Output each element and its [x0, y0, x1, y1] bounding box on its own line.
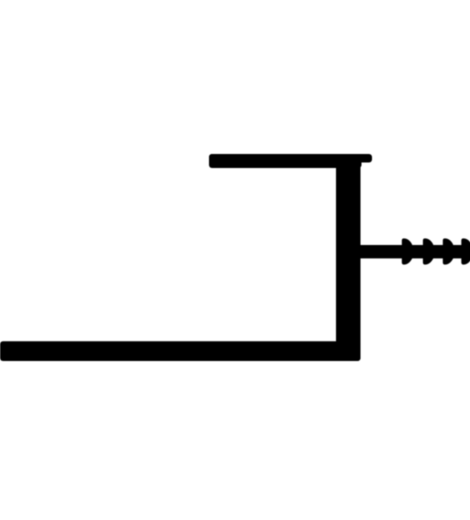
screw thread crest 1: [402, 238, 414, 264]
vertical web bar: [336, 154, 361, 361]
top flange right tab: [209, 154, 372, 163]
bottom base bar: [0, 341, 361, 361]
screw thread crest 3: [443, 238, 455, 264]
screw shaft: [359, 245, 470, 258]
screw thread crest 2: [423, 238, 435, 264]
top flange bar: [209, 154, 362, 168]
screw thread crest 4: [461, 238, 470, 264]
